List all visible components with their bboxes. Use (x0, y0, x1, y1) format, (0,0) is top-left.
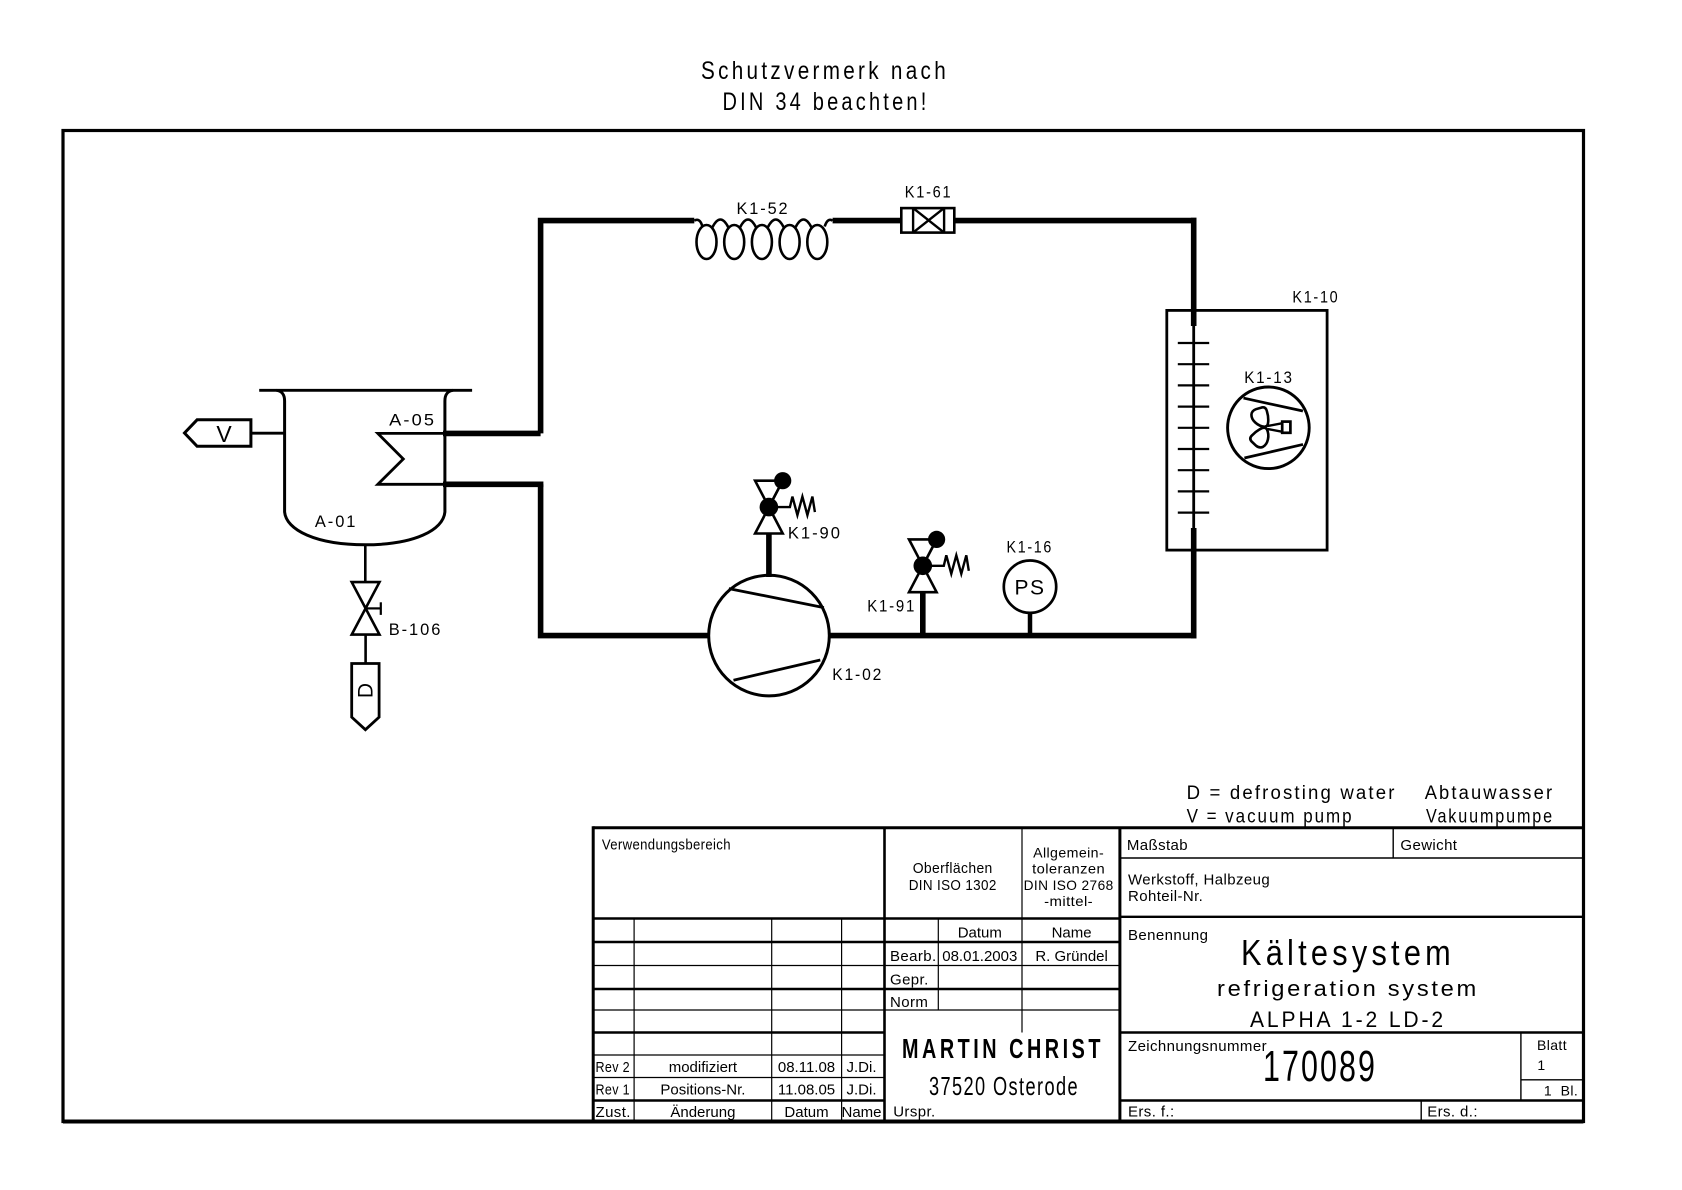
svg-text:Oberflächen: Oberflächen (913, 860, 993, 877)
svg-text:Vakuumpumpe: Vakuumpumpe (1426, 807, 1554, 828)
svg-text:K1-16: K1-16 (1007, 538, 1054, 557)
wire: A-05 bottom connection pipe (443, 481, 543, 487)
condenser fins (1178, 343, 1209, 513)
svg-text:MARTIN CHRIST: MARTIN CHRIST (902, 1033, 1104, 1064)
wire: bottom main line from condenser to compressor and evaporator riser (541, 484, 1197, 638)
compressor K1-02 (709, 575, 830, 696)
svg-text:A-01: A-01 (315, 512, 358, 531)
svg-text:A-05: A-05 (389, 411, 436, 430)
svg-text:Positions-Nr.: Positions-Nr. (660, 1082, 745, 1099)
wire: K1-91 stem to main line (920, 592, 926, 637)
svg-text:D = defrosting water: D = defrosting water (1187, 783, 1397, 804)
wire: valve to defrost flag (364, 635, 367, 664)
condenser K1-10 (finned box) (1167, 310, 1327, 550)
svg-text:modifiziert: modifiziert (669, 1059, 738, 1076)
svg-text:K1-91: K1-91 (867, 597, 916, 616)
svg-text:Ers. f.:: Ers. f.: (1128, 1104, 1175, 1121)
coil K1-52 (winding in top pipe) (694, 220, 832, 260)
svg-text:Gewicht: Gewicht (1400, 837, 1457, 854)
svg-text:DIN ISO 1302: DIN ISO 1302 (909, 877, 997, 894)
svg-text:1: 1 (1537, 1057, 1545, 1073)
svg-text:R. Gründel: R. Gründel (1035, 948, 1108, 965)
svg-text:Allgemein-: Allgemein- (1033, 845, 1104, 861)
vessel A-01 (evaporator tank) (259, 390, 472, 545)
svg-text:J.Di.: J.Di. (847, 1059, 877, 1076)
wire: compressor top stem to K1-90 (766, 534, 772, 577)
svg-text:Ers. d.:: Ers. d.: (1427, 1104, 1478, 1121)
wire: right riser into condenser K1-10 (1191, 218, 1197, 326)
svg-text:-mittel-: -mittel- (1044, 893, 1093, 909)
svg-text:Datum: Datum (784, 1104, 828, 1121)
svg-text:K1-52: K1-52 (737, 199, 790, 218)
wire: vessel bottom outlet (364, 545, 367, 582)
svg-text:Bearb.: Bearb. (890, 948, 937, 965)
wire: A-05 top connection pipe (443, 431, 541, 437)
wire: condenser outlet down to liquid line (1191, 528, 1197, 638)
svg-text:08.11.08: 08.11.08 (778, 1059, 835, 1076)
svg-text:Norm: Norm (890, 994, 928, 1011)
svg-text:Abtauwasser: Abtauwasser (1425, 783, 1555, 804)
wire: top discharge pipe from left riser to condenser (538, 218, 1197, 434)
svg-text:PS: PS (1014, 577, 1045, 600)
svg-text:Datum: Datum (958, 925, 1002, 942)
svg-text:refrigeration system: refrigeration system (1217, 976, 1479, 1001)
svg-text:08.01.2003: 08.01.2003 (942, 948, 1017, 965)
svg-text:Maßstab: Maßstab (1127, 837, 1188, 854)
svg-text:Zeichnungsnummer: Zeichnungsnummer (1128, 1038, 1267, 1055)
svg-text:Gepr.: Gepr. (890, 972, 929, 989)
heat exchanger A-05 (chevron element inside vessel) (378, 433, 445, 484)
wire: thin pipe inside condenser (1192, 326, 1195, 528)
control valve K1-91 (909, 539, 937, 592)
drawing frame border (63, 131, 1584, 1122)
svg-text:toleranzen: toleranzen (1032, 861, 1105, 877)
svg-text:DIN ISO 2768: DIN ISO 2768 (1024, 877, 1114, 893)
svg-text:170089: 170089 (1263, 1042, 1377, 1091)
svg-text:Urspr.: Urspr. (893, 1104, 935, 1121)
svg-text:Verwendungsbereich: Verwendungsbereich (602, 837, 731, 854)
svg-text:Änderung: Änderung (670, 1104, 735, 1121)
svg-text:Blatt: Blatt (1537, 1037, 1567, 1053)
svg-text:Werkstoff, Halbzeug: Werkstoff, Halbzeug (1128, 872, 1270, 889)
svg-text:K1-90: K1-90 (788, 524, 842, 543)
node V: vacuum pump connection flag (251, 432, 285, 435)
svg-text:Name: Name (1052, 925, 1092, 942)
svg-text:K1-10: K1-10 (1292, 288, 1339, 307)
svg-text:Name: Name (841, 1104, 881, 1121)
svg-text:V = vacuum pump: V = vacuum pump (1187, 807, 1354, 828)
svg-text:Zust.: Zust. (596, 1104, 631, 1121)
svg-text:ALPHA 1-2 LD-2: ALPHA 1-2 LD-2 (1250, 1007, 1446, 1032)
fan K1-13 (1228, 387, 1310, 469)
svg-text:Rev 1: Rev 1 (596, 1082, 631, 1099)
svg-text:11.08.05: 11.08.05 (778, 1082, 835, 1099)
solenoid valve K1-61 (901, 208, 954, 233)
svg-text:Schutzvermerk nach: Schutzvermerk nach (701, 57, 949, 85)
svg-text:D: D (354, 683, 377, 698)
title block grid (63, 826, 1583, 1121)
svg-text:J.Di.: J.Di. (847, 1082, 877, 1099)
svg-text:K1-13: K1-13 (1244, 368, 1294, 387)
svg-text:Rohteil-Nr.: Rohteil-Nr. (1128, 888, 1203, 905)
svg-text:37520 Osterode: 37520 Osterode (929, 1071, 1079, 1101)
svg-text:K1-02: K1-02 (832, 665, 883, 684)
pressure switch K1-16 (PS) (1004, 561, 1056, 613)
svg-text:Kältesystem: Kältesystem (1241, 932, 1455, 973)
svg-text:DIN 34 beachten!: DIN 34 beachten! (723, 88, 930, 116)
wire: PS stem (1028, 610, 1033, 637)
control valve K1-90 (pressure regulator on compressor) (755, 481, 783, 534)
svg-text:1 Bl.: 1 Bl. (1544, 1083, 1578, 1099)
svg-text:V: V (216, 421, 232, 447)
svg-text:Rev 2: Rev 2 (596, 1059, 631, 1076)
node D: defrosting water flag (352, 664, 379, 730)
valve B-106 (drain valve) (352, 582, 381, 635)
svg-text:B-106: B-106 (389, 620, 443, 639)
svg-text:Benennung: Benennung (1128, 927, 1208, 944)
svg-text:K1-61: K1-61 (905, 183, 953, 202)
